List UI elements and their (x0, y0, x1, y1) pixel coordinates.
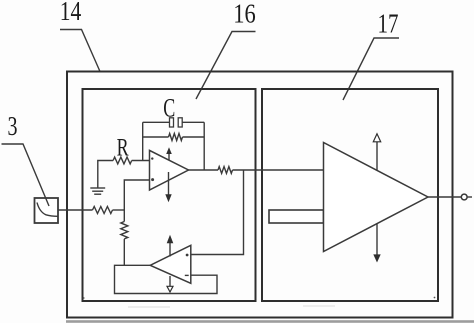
wire capacitor left (143, 121, 170, 123)
wire after terminal (467, 196, 472, 198)
wire resistor to node A (113, 209, 125, 211)
pin marker U1 noninverting (151, 178, 154, 181)
amplifier 17 input stub bar (269, 210, 324, 223)
inner box 17 (262, 89, 438, 301)
sensor curve (37, 203, 58, 217)
svg-text:17: 17 (378, 9, 399, 39)
capacitor C plates (170, 118, 183, 127)
sensor 3 square (35, 198, 59, 223)
wire feedback right vertical (203, 122, 205, 170)
wire node A up to op-amp U1 noninverting input (124, 180, 149, 222)
wire amplifier output (428, 196, 461, 198)
pin marker U2 bottom input (185, 275, 189, 276)
scan artifact dot box16 (83, 297, 85, 299)
inner box 16 (83, 89, 256, 301)
label 16 (196, 0, 256, 99)
wire U2 output feedback loop (115, 265, 218, 293)
svg-text:C: C (163, 94, 175, 123)
amplifier 17 (324, 143, 429, 252)
svg-text:3: 3 (8, 111, 18, 141)
arrow up amplifier 17 (373, 134, 380, 170)
outer enclosure box 14 (67, 72, 453, 318)
wire feedback resistor left (143, 136, 169, 138)
wire U1 output (189, 169, 219, 171)
arrow down U2 (167, 276, 173, 292)
scan artifact faint smudge right (303, 305, 335, 307)
pin marker U1 inverting (151, 157, 153, 159)
pin marker U2 top input (186, 254, 189, 257)
wire to amplifier 17 input (233, 169, 324, 171)
resistor R (113, 157, 132, 164)
wire R to U1 inverting input (132, 160, 150, 162)
wire junction down to U2 noninverting input (191, 170, 244, 255)
wire sensor output (58, 209, 93, 211)
svg-text:14: 14 (60, 0, 82, 26)
wire vertical resistor to U2 output line (123, 239, 125, 265)
scan artifact faint smudge left (128, 306, 170, 308)
scan artifact dot box17 (434, 297, 436, 299)
wire ground branch (98, 161, 113, 188)
label 3 (2, 111, 50, 206)
resistor feedback (169, 134, 183, 141)
svg-text:16: 16 (233, 0, 256, 28)
wire capacitor right (182, 121, 204, 123)
arrow up U1 (166, 147, 172, 160)
arrow up U2 (167, 235, 174, 257)
label 17 (343, 9, 399, 101)
wire feedback resistor right (183, 136, 205, 138)
arrow down U1 (165, 172, 171, 202)
arrow down amplifier 17 (373, 224, 380, 263)
resistor U1 output (218, 167, 232, 174)
label 14 (60, 0, 100, 72)
resistor input (sensor to node A) (93, 207, 113, 214)
op-amp U1 (150, 150, 189, 190)
scan artifact bottom gray bar (66, 320, 474, 323)
ground (90, 188, 105, 194)
resistor vertical (node A to U2 output) (121, 222, 128, 239)
output terminal circle (461, 194, 467, 200)
wire feedback left vertical (142, 122, 144, 160)
op-amp U2 (150, 245, 191, 283)
